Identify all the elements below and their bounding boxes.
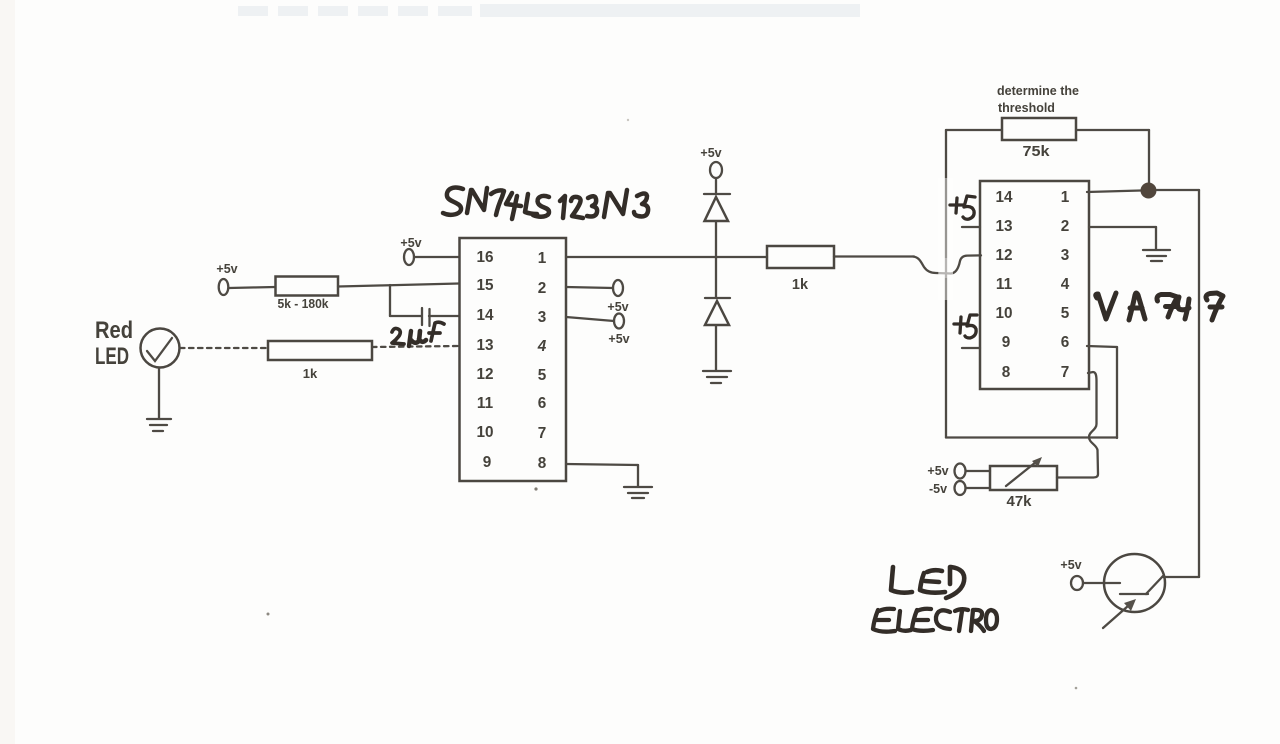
svg-text:14: 14: [995, 189, 1013, 206]
svg-text:+5v: +5v: [700, 146, 721, 160]
svg-text:1: 1: [1061, 189, 1070, 206]
svg-text:threshold: threshold: [998, 101, 1055, 115]
svg-text:16: 16: [476, 249, 493, 266]
svg-text:10: 10: [995, 305, 1012, 322]
svg-text:1k: 1k: [303, 366, 318, 381]
svg-text:4: 4: [537, 338, 547, 355]
svg-text:+5v: +5v: [927, 464, 948, 478]
svg-text:14: 14: [476, 307, 494, 324]
svg-text:9: 9: [1002, 334, 1011, 351]
svg-text:15: 15: [476, 277, 494, 294]
svg-text:Red: Red: [95, 317, 133, 344]
svg-text:+5v: +5v: [216, 262, 237, 276]
svg-text:47k: 47k: [1007, 493, 1033, 510]
svg-text:11: 11: [477, 395, 494, 412]
svg-text:5: 5: [538, 367, 547, 384]
svg-text:determine the: determine the: [997, 84, 1079, 98]
svg-text:+5v: +5v: [607, 300, 628, 314]
svg-text:5k - 180k: 5k - 180k: [278, 296, 330, 311]
svg-text:+5v: +5v: [1060, 558, 1081, 572]
svg-text:8: 8: [1002, 364, 1011, 381]
svg-text:8: 8: [538, 455, 547, 472]
svg-text:10: 10: [476, 424, 493, 441]
svg-text:6: 6: [1061, 334, 1070, 351]
svg-text:4: 4: [1061, 276, 1070, 293]
svg-text:2: 2: [538, 280, 547, 297]
svg-text:9: 9: [483, 454, 492, 471]
svg-text:LED: LED: [95, 343, 129, 370]
svg-text:3: 3: [538, 309, 547, 326]
svg-text:2: 2: [1061, 218, 1070, 235]
svg-text:12: 12: [476, 366, 493, 383]
svg-text:12: 12: [995, 247, 1012, 264]
svg-text:13: 13: [995, 218, 1012, 235]
svg-text:6: 6: [538, 395, 547, 412]
svg-text:+5v: +5v: [608, 332, 629, 346]
svg-text:75k: 75k: [1023, 143, 1051, 160]
svg-text:5: 5: [1061, 305, 1070, 322]
svg-text:+5v: +5v: [400, 236, 421, 250]
svg-text:7: 7: [1061, 364, 1070, 381]
svg-text:1k: 1k: [792, 277, 809, 293]
svg-text:1: 1: [538, 250, 547, 267]
svg-text:13: 13: [476, 337, 493, 354]
svg-text:11: 11: [996, 276, 1013, 293]
svg-text:7: 7: [538, 425, 547, 442]
svg-text:3: 3: [1061, 247, 1070, 264]
svg-text:-5v: -5v: [929, 482, 947, 496]
